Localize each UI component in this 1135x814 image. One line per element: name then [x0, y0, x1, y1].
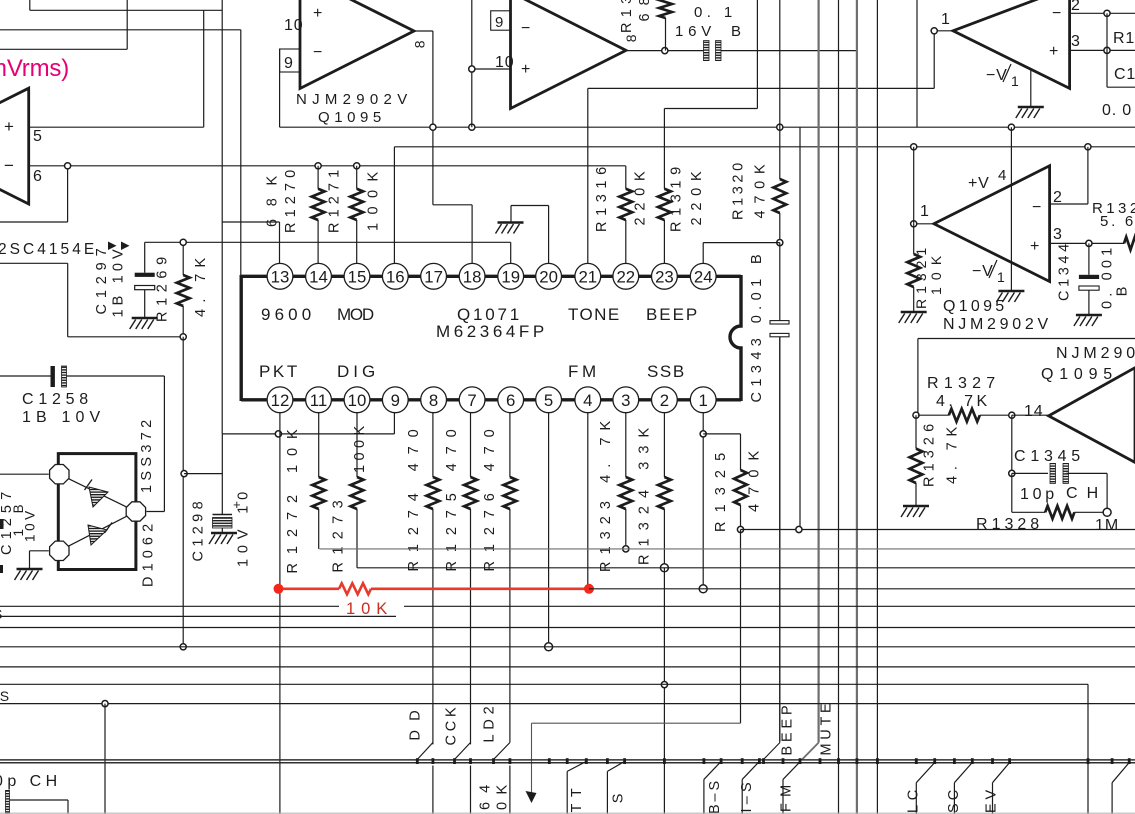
svg-text:4: 4: [583, 391, 592, 410]
pin 9 box op-amp B1: [280, 49, 300, 72]
pin 4: [575, 387, 601, 413]
wire V4 feed: [913, 147, 915, 224]
ground C1344: [1074, 315, 1102, 326]
wire pin24: [703, 242, 780, 244]
pin 12: [267, 387, 293, 413]
svg-text:Q1095: Q1095: [318, 109, 382, 126]
bus entry DD: [417, 743, 433, 760]
junction dots R1269: [180, 239, 186, 245]
capacitor C1298: [221, 434, 223, 515]
svg-text:1: 1: [920, 203, 930, 220]
svg-text:6: 6: [33, 168, 43, 185]
junction: [913, 412, 919, 418]
svg-text:C1345: C1345: [1014, 448, 1081, 465]
wire y684: [0, 683, 1088, 685]
svg-text:mVrms): mVrms): [0, 55, 70, 82]
junction dot output: [662, 48, 668, 54]
wire node top of C1297/R1269: [145, 241, 511, 243]
svg-text:+: +: [4, 117, 15, 136]
svg-text:C1344: C1344: [1057, 243, 1073, 301]
bus vertical line 2: [838, 0, 840, 814]
wire pin20 jog to ground: [511, 205, 549, 207]
arrowhead: [526, 791, 537, 803]
wire op-amp B1 output: [414, 30, 433, 32]
pin 6: [498, 387, 524, 413]
pin 10: [344, 387, 370, 413]
svg-text:10: 10: [348, 391, 367, 410]
svg-text:SC: SC: [946, 789, 962, 813]
junction x183 y474: [181, 471, 187, 477]
svg-text:LC: LC: [906, 789, 922, 813]
svg-text:−V: −V: [972, 263, 994, 280]
wire pin10 op-amp B2: [472, 68, 511, 70]
pin 14: [306, 263, 332, 289]
svg-text:6: 6: [506, 391, 515, 410]
svg-text:+: +: [313, 5, 323, 22]
pin 2: [652, 387, 678, 413]
resistor R1324: [663, 413, 665, 477]
wire y627: [0, 627, 1135, 629]
svg-text:C1258: C1258: [22, 391, 89, 408]
wire pad left top: [0, 473, 49, 475]
wire y606: [0, 605, 339, 607]
svg-text:10V: 10V: [23, 510, 38, 542]
wire R1324 column down: [663, 568, 665, 814]
svg-text:3: 3: [1071, 33, 1081, 50]
resistor R1275: [470, 413, 472, 477]
svg-text:9: 9: [495, 14, 504, 31]
capacitor C1345: [1050, 463, 1056, 483]
wire output pin1: [934, 30, 953, 32]
ground C1297: [130, 318, 158, 329]
svg-text:16V: 16V: [675, 23, 712, 40]
svg-text:12: 12: [271, 391, 290, 410]
op-amp U2a (top right): [953, 0, 1070, 88]
pin 5: [536, 387, 562, 413]
bus entry EV: [992, 783, 994, 814]
pin 20: [536, 263, 562, 289]
svg-text:R1270: R1270: [283, 169, 299, 233]
bus entry SC: [953, 783, 955, 814]
op-amp U1b NJM2902V center: [511, 0, 627, 109]
wire long net y127: [280, 126, 1135, 128]
pin 24: [690, 263, 716, 289]
pin 13: [267, 263, 293, 289]
pin 8: [421, 387, 447, 413]
svg-text:R1327: R1327: [927, 375, 996, 392]
svg-text:+: +: [1049, 43, 1059, 60]
svg-text:R1324 33K: R1324 33K: [637, 427, 653, 565]
svg-text:21: 21: [578, 267, 597, 286]
wire: [126, 0, 128, 49]
wire y568: [357, 567, 1135, 569]
capacitor bottom left: [6, 790, 10, 813]
wire R1325 col down: [740, 530, 742, 724]
wire cap to right: [721, 50, 857, 52]
svg-text:NJM2902V: NJM2902V: [943, 316, 1049, 333]
bus main double line: [0, 759, 1135, 761]
svg-text:3: 3: [1053, 226, 1063, 243]
wire pin12 down to red node: [279, 413, 281, 814]
wire R1269 bottom to lower line: [182, 337, 184, 647]
svg-text:0. 0: 0. 0: [1102, 102, 1132, 119]
svg-text:C1298: C1298: [191, 501, 207, 562]
svg-text:23: 23: [655, 267, 674, 286]
capacitor C1297: [144, 242, 146, 272]
svg-text:68K: 68K: [265, 175, 281, 227]
arrows after 2SC4154E: [108, 242, 117, 251]
svg-text:16: 16: [386, 267, 405, 286]
wire pad right: [146, 511, 164, 513]
pin 7: [459, 387, 485, 413]
svg-text:R1326: R1326: [922, 423, 938, 487]
svg-text:TONE: TONE: [568, 305, 620, 324]
svg-text:1: 1: [699, 391, 708, 410]
svg-text:Q1095: Q1095: [943, 298, 1005, 315]
svg-text:−: −: [1032, 199, 1042, 216]
svg-text:FM: FM: [568, 362, 597, 381]
wire pin16: [393, 147, 395, 264]
bus entry I-S: [741, 779, 743, 814]
wire vertical from y703: [104, 704, 106, 814]
svg-text:B: B: [1115, 286, 1131, 296]
bus vertical line 3 gray: [856, 0, 858, 814]
ground pin19 area: [496, 223, 524, 234]
svg-text:CCK: CCK: [444, 707, 460, 746]
resistor R1269: [182, 242, 184, 275]
svg-text:MUTE: MUTE: [819, 703, 835, 756]
wire y549 gray: [319, 548, 1135, 550]
svg-text:10: 10: [284, 17, 303, 34]
resistor R1271: [356, 166, 358, 189]
svg-text:1: 1: [941, 11, 951, 28]
resistor R1321: [913, 224, 915, 254]
wire pin4 down: [587, 413, 589, 589]
wire pin5 down: [548, 413, 550, 647]
pin 15: [344, 263, 370, 289]
resistor R1326: [915, 415, 917, 448]
svg-text:R1328: R1328: [976, 516, 1040, 533]
wire pin12 net: [222, 433, 394, 435]
junction dot R1320 bottom: [777, 240, 783, 246]
bus entry CCK: [455, 743, 471, 760]
pin 16: [382, 263, 408, 289]
svg-text:14: 14: [1024, 403, 1043, 420]
wire box around R1327: [918, 338, 1135, 340]
pin 9: [382, 387, 408, 413]
resistor R1319: [663, 109, 665, 189]
svg-text:−: −: [521, 20, 531, 37]
bus vertical line 4: [876, 0, 878, 814]
svg-text:0p CH: 0p CH: [0, 773, 58, 790]
svg-text:LD2: LD2: [482, 706, 498, 743]
bus entry B-S: [703, 779, 705, 814]
wire pin1 to R1325: [703, 433, 740, 435]
svg-text:1: 1: [1011, 73, 1020, 89]
svg-text:1: 1: [997, 269, 1006, 285]
junction dots y147: [911, 144, 917, 150]
capacitor C1257 fragment: [0, 519, 4, 529]
svg-text:5: 5: [33, 128, 43, 145]
pin 23: [652, 263, 678, 289]
pad bottom-left: [50, 541, 69, 560]
svg-text:8: 8: [429, 391, 438, 410]
ground C1298: [209, 533, 237, 544]
capacitor C1344: [1088, 243, 1090, 274]
junction dots y127: [430, 124, 436, 130]
bus entry LD2: [494, 743, 510, 760]
svg-text:+: +: [521, 61, 531, 78]
bus entry far right: [1111, 783, 1113, 814]
svg-text:8: 8: [623, 34, 639, 43]
svg-text:C1: C1: [1114, 66, 1135, 83]
svg-text:5: 5: [544, 391, 553, 410]
resistor R1276: [509, 413, 511, 477]
pin 9 box op-amp B2: [491, 11, 511, 30]
pin 3: [613, 387, 639, 413]
sheet edge line: [0, 812, 1135, 814]
resistor R1320: [779, 0, 781, 179]
capacitor C1343: [779, 243, 781, 321]
red jumper wire 10K: [279, 587, 340, 590]
wire pin18 jog: [433, 204, 472, 206]
svg-text:R1275 470: R1275 470: [444, 429, 460, 572]
wire right corner: [1087, 684, 1089, 814]
op-amp A (2SC4154E stage): [0, 88, 29, 204]
bus vertical line BEEP net: [779, 337, 781, 743]
svg-text:24: 24: [694, 267, 713, 286]
wire feedback op-amp A: [67, 166, 69, 222]
diode D1062b: [88, 525, 107, 545]
ground diode: [15, 569, 43, 580]
op-amp U1a NJM2902V: [300, 0, 414, 89]
svg-text:3: 3: [621, 391, 630, 410]
svg-text:2: 2: [660, 391, 669, 410]
svg-text:R1271: R1271: [327, 169, 343, 233]
junction dots on pin6 line: [65, 163, 71, 169]
wire pad bottom to ground: [30, 550, 49, 552]
svg-text:17: 17: [424, 267, 443, 286]
wire output pin1 opamp D: [914, 223, 934, 225]
resistor R1328: [1045, 506, 1074, 519]
svg-text:2: 2: [1053, 189, 1063, 206]
resistor R1274: [432, 413, 434, 477]
wire R1328 row: [1011, 473, 1013, 512]
wire op-amp B1 pin9 feed: [279, 49, 281, 127]
resistor R13xx 5.6K right edge: [1124, 237, 1135, 250]
svg-text:DIG: DIG: [337, 362, 376, 381]
op-amp U2b (+V4): [934, 166, 1050, 282]
svg-text:I–S: I–S: [739, 782, 755, 813]
svg-text:5. 6: 5. 6: [1100, 213, 1134, 230]
bus joint ticks: [416, 758, 419, 764]
svg-text:SSB: SSB: [647, 362, 685, 381]
wire: [0, 48, 127, 50]
svg-text:MOD: MOD: [337, 305, 375, 324]
wire R1327 row: [918, 414, 949, 416]
svg-text:+V: +V: [968, 175, 990, 192]
ground R1321: [899, 312, 927, 323]
resistor R1316: [625, 166, 627, 189]
wire y647: [0, 646, 1135, 648]
svg-text:10K: 10K: [346, 600, 388, 618]
resistor R1272: [318, 413, 320, 477]
pin 18: [459, 263, 485, 289]
resistor R1323: [625, 413, 627, 477]
bus entry S: [606, 771, 608, 814]
ground -V1 opamp D: [1010, 127, 1012, 291]
bus entry TT: [566, 771, 568, 814]
wire op-amp B2 output: [626, 50, 706, 52]
svg-text:13: 13: [271, 267, 290, 286]
svg-text:R1321: R1321: [913, 247, 929, 309]
svg-text:10K: 10K: [928, 255, 944, 295]
capacitor C1258: [0, 375, 52, 377]
svg-text:B: B: [731, 23, 742, 40]
wire y589 black part: [589, 588, 1135, 590]
wire vertical top: [916, 0, 918, 127]
svg-text:IS: IS: [0, 688, 10, 704]
svg-text:NJM290: NJM290: [1056, 345, 1135, 362]
diode block D1062 1SS372 body: [58, 454, 136, 570]
svg-text:4: 4: [998, 167, 1007, 184]
diode wires: [59, 474, 136, 511]
svg-text:BEEP: BEEP: [646, 305, 698, 324]
svg-text:+: +: [1030, 238, 1040, 255]
wire pin6 op-amp A: [29, 165, 626, 167]
wire y616: [0, 615, 396, 617]
wire y667: [0, 666, 1135, 668]
pad top-left: [50, 465, 69, 484]
svg-text:−: −: [1052, 5, 1062, 22]
svg-text:R1274 470: R1274 470: [406, 429, 422, 572]
wire long net y147: [394, 146, 1135, 148]
svg-text:S: S: [611, 793, 627, 803]
svg-text:19: 19: [501, 267, 520, 286]
svg-text:22: 22: [616, 267, 635, 286]
capacitor 0.1 16V B: [704, 41, 710, 61]
wire pin21 to op-amp C output: [588, 87, 934, 89]
svg-text:B–S: B–S: [707, 780, 723, 814]
svg-text:R1: R1: [1113, 30, 1135, 47]
pin 21: [575, 263, 601, 289]
svg-text:2: 2: [1071, 0, 1081, 14]
resistor R1273: [356, 413, 358, 477]
ground R1326: [901, 506, 929, 517]
wire pin9 stub: [393, 413, 395, 434]
wire y703: [0, 703, 1135, 705]
wire pin23 top: [664, 108, 757, 110]
svg-text:8: 8: [412, 40, 428, 49]
svg-text:7: 7: [467, 391, 476, 410]
junction dots pin6 line R1270 R1271: [315, 163, 321, 169]
wire pin2 opamp C: [1070, 12, 1135, 14]
wire left stub: [0, 262, 68, 264]
IC Q1071 M62364FP body: [241, 275, 741, 401]
svg-text:R1276 470: R1276 470: [482, 429, 498, 572]
svg-text:10p: 10p: [1020, 486, 1055, 503]
pin 22: [613, 263, 639, 289]
diode D1062a: [89, 487, 108, 507]
bus vertical MUTE net gray: [817, 0, 819, 743]
svg-text:14: 14: [309, 267, 328, 286]
wire arrow net: [532, 722, 741, 724]
wire top-left net: [29, 0, 31, 10]
wire C1345 net: [1011, 415, 1013, 473]
ground opamp C: [1030, 70, 1032, 108]
wire box C right edge: [1106, 13, 1108, 87]
pin 17: [421, 263, 447, 289]
svg-text:−: −: [313, 44, 323, 61]
wire pin19 stub: [510, 242, 512, 263]
wire: [221, 0, 223, 434]
svg-text:R1272 10K: R1272 10K: [285, 429, 301, 574]
wire pin3 opamp C: [1070, 49, 1135, 51]
op-amp U3 (pin14): [1049, 368, 1135, 463]
resistor R1325: [740, 434, 742, 470]
wire y529: [741, 529, 1135, 531]
resistor R1317 68K vertical at top: [659, 0, 672, 18]
svg-text:15: 15: [348, 267, 367, 286]
pin 1: [690, 387, 716, 413]
svg-text:11: 11: [310, 391, 327, 410]
wire node pin13: [222, 221, 279, 223]
svg-text:S: S: [0, 606, 3, 622]
pad right: [126, 502, 145, 521]
wire pin3 opamp D: [1050, 242, 1124, 244]
svg-text:−V: −V: [986, 67, 1008, 84]
svg-text:D1062: D1062: [141, 523, 157, 587]
svg-text:PKT: PKT: [259, 362, 298, 381]
wire pin5 op-amp A: [29, 126, 204, 128]
svg-text:9: 9: [391, 391, 400, 410]
bus entry LC: [915, 783, 917, 814]
resistor R1270: [317, 166, 319, 189]
pin 11: [306, 387, 332, 413]
pin 19: [498, 263, 524, 289]
bus entry FM: [782, 779, 784, 814]
svg-text:9: 9: [284, 55, 294, 72]
wire: [0, 29, 241, 31]
wire pin1 down: [702, 413, 704, 589]
svg-text:−: −: [4, 156, 15, 175]
svg-text:20: 20: [539, 267, 558, 286]
svg-text:1M: 1M: [1095, 517, 1119, 534]
svg-text:18: 18: [463, 267, 482, 286]
svg-text:R1320: R1320: [731, 162, 747, 220]
wire jog to x800: [799, 127, 801, 532]
wire pin2 opamp D: [1050, 203, 1088, 205]
resistor R1327: [949, 409, 980, 422]
